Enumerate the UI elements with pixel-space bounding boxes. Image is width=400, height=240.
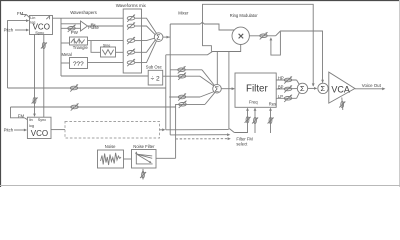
wire BP output xyxy=(276,88,297,90)
potentiometer LP level xyxy=(284,95,292,102)
svg-text:BP: BP xyxy=(278,84,284,89)
summing node waveform mix xyxy=(154,33,163,42)
arrowhead freq cv2 up xyxy=(254,108,257,111)
wire noise filter out xyxy=(156,157,176,159)
potentiometer PW amount xyxy=(68,25,76,32)
noise source box xyxy=(98,150,124,168)
potentiometer metal level xyxy=(127,59,135,66)
arrowhead VCO1 to VCO2 top xyxy=(33,114,36,117)
svg-text:Sub Osc: Sub Osc xyxy=(146,65,162,70)
wire VCO2 to VCO1 log FM: vertical riser xyxy=(8,21,29,88)
wire noise diag to sum2 xyxy=(205,92,215,104)
wire fan sine to sum xyxy=(142,40,156,52)
arrowhead voice out xyxy=(382,87,385,90)
svg-text:Σ: Σ xyxy=(215,86,220,93)
wire filter sum to vca sum xyxy=(308,87,317,89)
summing node vca input xyxy=(318,83,328,93)
wire LP output xyxy=(276,97,296,99)
summing node mixer xyxy=(213,84,222,93)
svg-text:Voice Out: Voice Out xyxy=(362,83,382,88)
wire noise to noise filter xyxy=(124,158,132,160)
wire mixer vco1 tap xyxy=(170,69,202,71)
noise filter box xyxy=(132,150,157,169)
wire fan metal to sum xyxy=(142,41,157,63)
svg-text:Noise Filter: Noise Filter xyxy=(133,144,155,149)
svg-text:Mixer: Mixer xyxy=(178,11,189,16)
wire mixer vco2 tap xyxy=(169,96,200,98)
wire sine output xyxy=(116,51,124,53)
potentiometer VCA cv amount xyxy=(339,101,345,107)
bus noise signal vertical xyxy=(175,107,177,158)
potentiometer mixer vco2 level xyxy=(178,93,186,100)
wire triangle to sine shaper xyxy=(91,41,101,53)
bus A VCO2 signal vertical xyxy=(165,55,167,130)
switch lever FM VCO1 xyxy=(26,15,29,18)
wire sub diag to sum2 xyxy=(200,76,214,86)
wire dashed block out arrow xyxy=(160,129,165,131)
svg-text:Metal: Metal xyxy=(62,52,72,57)
wire saw into pulse shaper xyxy=(61,23,81,25)
wire ring in 2 branch to mixer sum xyxy=(216,52,218,85)
wire filter freq cv 1 with select xyxy=(234,109,247,133)
arrowhead sum1 out xyxy=(167,36,170,39)
frame left border xyxy=(0,0,2,187)
wire fan pulse to sum xyxy=(142,26,156,35)
wire saw into metalizer xyxy=(61,62,70,64)
oscillator VCO2 box xyxy=(27,117,51,138)
svg-text:VCO: VCO xyxy=(31,129,48,138)
svg-text:Σ: Σ xyxy=(300,84,305,93)
wire ring mod output xyxy=(249,35,275,37)
wire fan triangle to sum xyxy=(142,38,155,40)
glyph triangle wave fold ticks xyxy=(74,38,79,43)
potentiometer ring mod level xyxy=(260,32,268,39)
wire VCO1 sync down to VCO2 sync xyxy=(43,35,45,118)
svg-text:Res: Res xyxy=(269,102,276,107)
wire filter res cv stub xyxy=(270,109,272,134)
block dashed routing box xyxy=(65,122,160,139)
svg-text:Σ: Σ xyxy=(156,35,161,42)
svg-text:log: log xyxy=(29,124,34,128)
arrowhead ring line into vca sum xyxy=(321,80,324,83)
wire LP diag to filter sum xyxy=(297,93,300,99)
wire PW input xyxy=(61,27,81,29)
svg-text:÷ 2: ÷ 2 xyxy=(151,75,160,82)
potentiometer filter fm amount xyxy=(245,117,251,123)
potentiometer pulse level xyxy=(127,22,135,29)
glyph sine wave xyxy=(102,50,113,55)
wire pulse output xyxy=(88,25,124,27)
svg-text:HP: HP xyxy=(278,75,284,80)
comparator pulse shaper triangle xyxy=(81,21,88,31)
glyph noise waveform xyxy=(101,153,122,165)
potentiometer BP level xyxy=(284,85,292,92)
label FM VCO2 wire xyxy=(11,107,25,118)
wire Pitch VCO1 xyxy=(15,29,28,31)
switch lever filter fm select xyxy=(229,129,234,133)
wire filter freq cv 2 stub xyxy=(254,109,256,134)
amplifier VCA triangle xyxy=(329,72,355,103)
wire saw into triangle shaper xyxy=(61,42,70,44)
wire feedback riser to top xyxy=(203,4,314,86)
potentiometer line A fm amount xyxy=(70,84,78,91)
potentiometer mixer vco1 level xyxy=(178,66,186,73)
potentiometer noise filter cutoff xyxy=(140,172,146,178)
svg-text:Sync: Sync xyxy=(38,118,47,122)
svg-text:Freq: Freq xyxy=(249,100,258,105)
svg-text:???: ??? xyxy=(73,61,84,68)
arrowhead dashed block out xyxy=(162,128,165,131)
svg-text:Sine: Sine xyxy=(103,44,111,48)
wire fm select line 2 from bus B xyxy=(170,134,227,136)
wire sum out to bus xyxy=(163,36,170,38)
glyph multiply cross xyxy=(239,34,244,39)
switch lever FM VCO2 xyxy=(24,118,27,120)
svg-text:lin: lin xyxy=(29,118,33,122)
oscillator VCO1 box xyxy=(30,16,53,35)
frame bottom border xyxy=(0,185,400,187)
wire ring mod input 1 from bus B xyxy=(170,23,200,25)
label FM VCO1 wire xyxy=(22,14,27,16)
wire VCO1 saw output to waveshapers xyxy=(53,17,124,19)
arrowhead filter axis top xyxy=(135,151,137,154)
wire fm select line 1 from bus A xyxy=(166,129,229,131)
potentiometer sync amount xyxy=(41,42,47,48)
block metalizer box xyxy=(70,58,88,69)
arrowhead into VCO1 log fm xyxy=(26,19,29,22)
wire jog over feedback riser xyxy=(200,22,234,30)
arrowhead res cv up xyxy=(269,108,272,111)
wire sub osc output to mixer xyxy=(163,75,200,77)
wire fm select line 3 dashed from noise xyxy=(176,138,228,140)
svg-text:VCA: VCA xyxy=(331,84,350,94)
svg-text:Sync: Sync xyxy=(35,30,44,35)
wire Pitch VCO2 xyxy=(14,129,26,131)
svg-text:Ring Modulator: Ring Modulator xyxy=(230,13,258,18)
svg-text:Σ: Σ xyxy=(321,84,326,93)
potentiometer sine level xyxy=(127,49,135,56)
potentiometer triangle level xyxy=(127,37,135,44)
svg-text:PW: PW xyxy=(71,30,79,35)
block waveshapers outline bottom edge / sub osc feed xyxy=(61,75,148,77)
frame top border xyxy=(0,0,400,2)
wire triangle output xyxy=(88,40,124,42)
arrowhead noise filter cv up xyxy=(142,170,145,173)
svg-text:Pulse: Pulse xyxy=(88,25,99,30)
glyph filter curves xyxy=(137,154,152,162)
block waveshapers outline left edge xyxy=(60,18,62,76)
wire att outputs inside column xyxy=(135,17,142,19)
wire ring out rise and across to vca sum xyxy=(276,31,323,83)
wire metalizer output xyxy=(88,62,124,64)
arrowhead filter sum to vca sum xyxy=(314,87,317,90)
potentiometer sub level xyxy=(178,73,186,80)
arrowhead ring branch into wire xyxy=(270,37,273,40)
svg-text:FM: FM xyxy=(17,11,24,16)
wire mixer out to filter xyxy=(221,88,234,90)
wire VCO2 out to dashed block xyxy=(51,129,65,131)
wire VCO1 out down to VCO2 lin (cross mod) xyxy=(34,35,36,117)
block waveforms mix column box xyxy=(123,9,141,73)
wire noise to VCO2 FM: line B xyxy=(11,106,176,108)
glyph filter axis xyxy=(136,152,152,164)
wire voice out xyxy=(355,88,384,90)
block sine shaper box xyxy=(101,47,116,57)
wire vco2 diag to sum2 xyxy=(200,92,214,98)
filter block box xyxy=(235,73,276,107)
summing node filter outputs xyxy=(297,83,307,93)
wire HP diag to filter sum xyxy=(297,80,300,85)
svg-text:Pitch: Pitch xyxy=(4,128,14,133)
block triangle shaper box xyxy=(70,37,88,45)
wire vco1 diag to sum2 xyxy=(202,70,215,86)
potentiometer mixer noise level xyxy=(179,101,187,108)
frame right border xyxy=(399,0,400,187)
wire mixer noise tap xyxy=(176,104,205,107)
potentiometer filter res amount xyxy=(268,117,274,123)
sawtooth glyph VCO1 xyxy=(46,16,49,19)
svg-text:LP: LP xyxy=(278,94,283,99)
arrowhead filter curve tip xyxy=(149,161,152,163)
svg-text:Waveshapers: Waveshapers xyxy=(70,10,97,15)
svg-text:Filter: Filter xyxy=(246,84,269,95)
svg-text:Noise: Noise xyxy=(105,144,116,149)
svg-text:Triangle: Triangle xyxy=(73,45,89,50)
potentiometer HP level xyxy=(284,76,292,83)
arrowhead feedback down xyxy=(312,83,315,86)
wire noise filter cv stub xyxy=(142,169,144,180)
potentiometer line B fm amount xyxy=(71,103,79,110)
arrowhead freq cv1 up xyxy=(246,108,249,111)
wire ring out branch U loop xyxy=(271,32,281,55)
arrowhead fm select line3 xyxy=(228,137,231,140)
arrowhead mixer out into filter xyxy=(232,87,235,90)
glyph triangle wave xyxy=(71,39,85,43)
wire VCA cv stub xyxy=(342,98,343,111)
bus B VCO1 mix signal vertical xyxy=(169,24,171,135)
arrowhead pitch VCO2 xyxy=(24,129,27,132)
svg-text:Pitch: Pitch xyxy=(4,28,14,33)
glyph pulse wave xyxy=(91,24,95,26)
arrowhead pitch VCO1 xyxy=(26,29,29,32)
svg-text:FM: FM xyxy=(18,114,25,119)
arrowhead fm select line2 xyxy=(227,133,230,136)
multiplier ring modulator circle xyxy=(232,27,249,44)
node FM junction dot VCO1 xyxy=(24,15,26,17)
wire ring mod input 2 from bus A xyxy=(166,45,241,55)
wire cross-mod line A (VCO2 out to VCO1 FM) xyxy=(8,87,166,89)
svg-text:Waveforms mix: Waveforms mix xyxy=(116,3,147,8)
wire fm option from ring input tap xyxy=(228,52,230,130)
potentiometer filter freq cv2 xyxy=(252,117,258,123)
wire fan saw to sum xyxy=(142,18,157,33)
potentiometer cross mod amount (VCO1 to VCO2) xyxy=(32,97,38,103)
block sub osc divider box xyxy=(148,70,163,85)
svg-text:select: select xyxy=(236,142,248,147)
wire HP output xyxy=(276,79,296,81)
potentiometer saw level xyxy=(127,15,135,22)
